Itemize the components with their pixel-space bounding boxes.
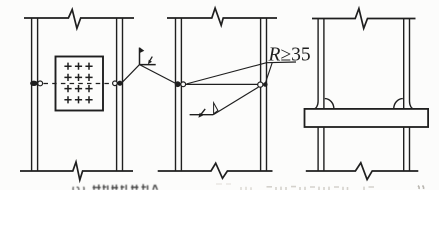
panel (a) splice cover plate — [56, 57, 104, 111]
panel (b) butt-splice seam line — [186, 83, 258, 85]
weld symbol W1 field-weld flag (filled) — [140, 47, 145, 53]
panel (c) upper left flange inner line — [323, 19, 325, 109]
panel (c) lower right flange (double line) — [404, 127, 410, 171]
panel (c) top chord line with break symbol — [312, 9, 416, 29]
label R>=35 short leader to right splice point — [265, 63, 272, 84]
weld symbol W1 reference line — [140, 64, 156, 66]
panel (c) lower left flange (double line) — [318, 127, 324, 171]
panel (c) upper right flange inner line — [403, 19, 405, 109]
panel (b) top chord line with break symbol — [167, 8, 277, 25]
weld symbol W1 vertical pole — [139, 48, 141, 65]
weld symbol W2 field-weld flag (outline) — [214, 103, 218, 114]
weld symbol W2 small arrow — [201, 109, 205, 115]
panel (b) right flange weld dot (filled) — [263, 82, 268, 87]
panel (c) left flange weld transition arc — [325, 99, 334, 109]
panel (a) left flange weld circle (open) — [38, 81, 43, 86]
caption (b)(c) faint clipped glyph tops — [216, 184, 424, 190]
panel (c) upper left flange outer line with outward curl — [314, 19, 319, 109]
label R>=35 long leader to left splice point — [187, 63, 267, 84]
svg-text:R≥35: R≥35 — [268, 45, 311, 66]
panel (a) dashed splice centerline — [44, 83, 113, 85]
caption (a) clipped glyph tops — [73, 184, 157, 190]
panel (c) bottom chord line with break symbol — [306, 163, 419, 180]
panel (b) left column flange (double line) — [176, 18, 182, 171]
panel (b) left flange weld dot (filled) — [175, 81, 181, 87]
panel (a) top chord line with break symbol — [24, 10, 134, 29]
panel (a) bolt crosses 4x3 grid — [64, 63, 92, 104]
panel (a) right column flange (double line) — [117, 18, 123, 171]
panel (c) upper right flange outer line with outward curl — [410, 19, 415, 109]
panel (b) right column flange (double line) — [261, 18, 267, 171]
panel (c) right flange weld transition arc — [394, 99, 403, 109]
panel (b) bottom chord line with break symbol — [158, 163, 273, 178]
panel (a) bottom chord line with break symbol — [20, 162, 133, 180]
panel (b) right flange weld circle (open) — [258, 82, 263, 87]
weld symbol W1 leader to panel (b) — [140, 65, 177, 84]
panel (c) bearing plate — [305, 109, 429, 127]
weld symbol W2 leader to right flange splice — [213, 87, 258, 115]
label R>=35 leader reference underline — [267, 61, 297, 64]
weld symbol W2 reference line — [190, 114, 214, 116]
panel (a) left flange weld dot (filled) — [30, 81, 38, 86]
panel (b) left flange weld circle (open) — [181, 82, 186, 87]
weld symbol W1 small arrow — [149, 57, 152, 62]
panel (a) right flange weld circle (open) — [113, 81, 118, 86]
panel (a) right flange weld dot (filled) — [117, 81, 122, 86]
weld symbol W1 leader to panel (a) — [122, 65, 140, 83]
panel (a) left column flange (double line) — [32, 18, 38, 171]
